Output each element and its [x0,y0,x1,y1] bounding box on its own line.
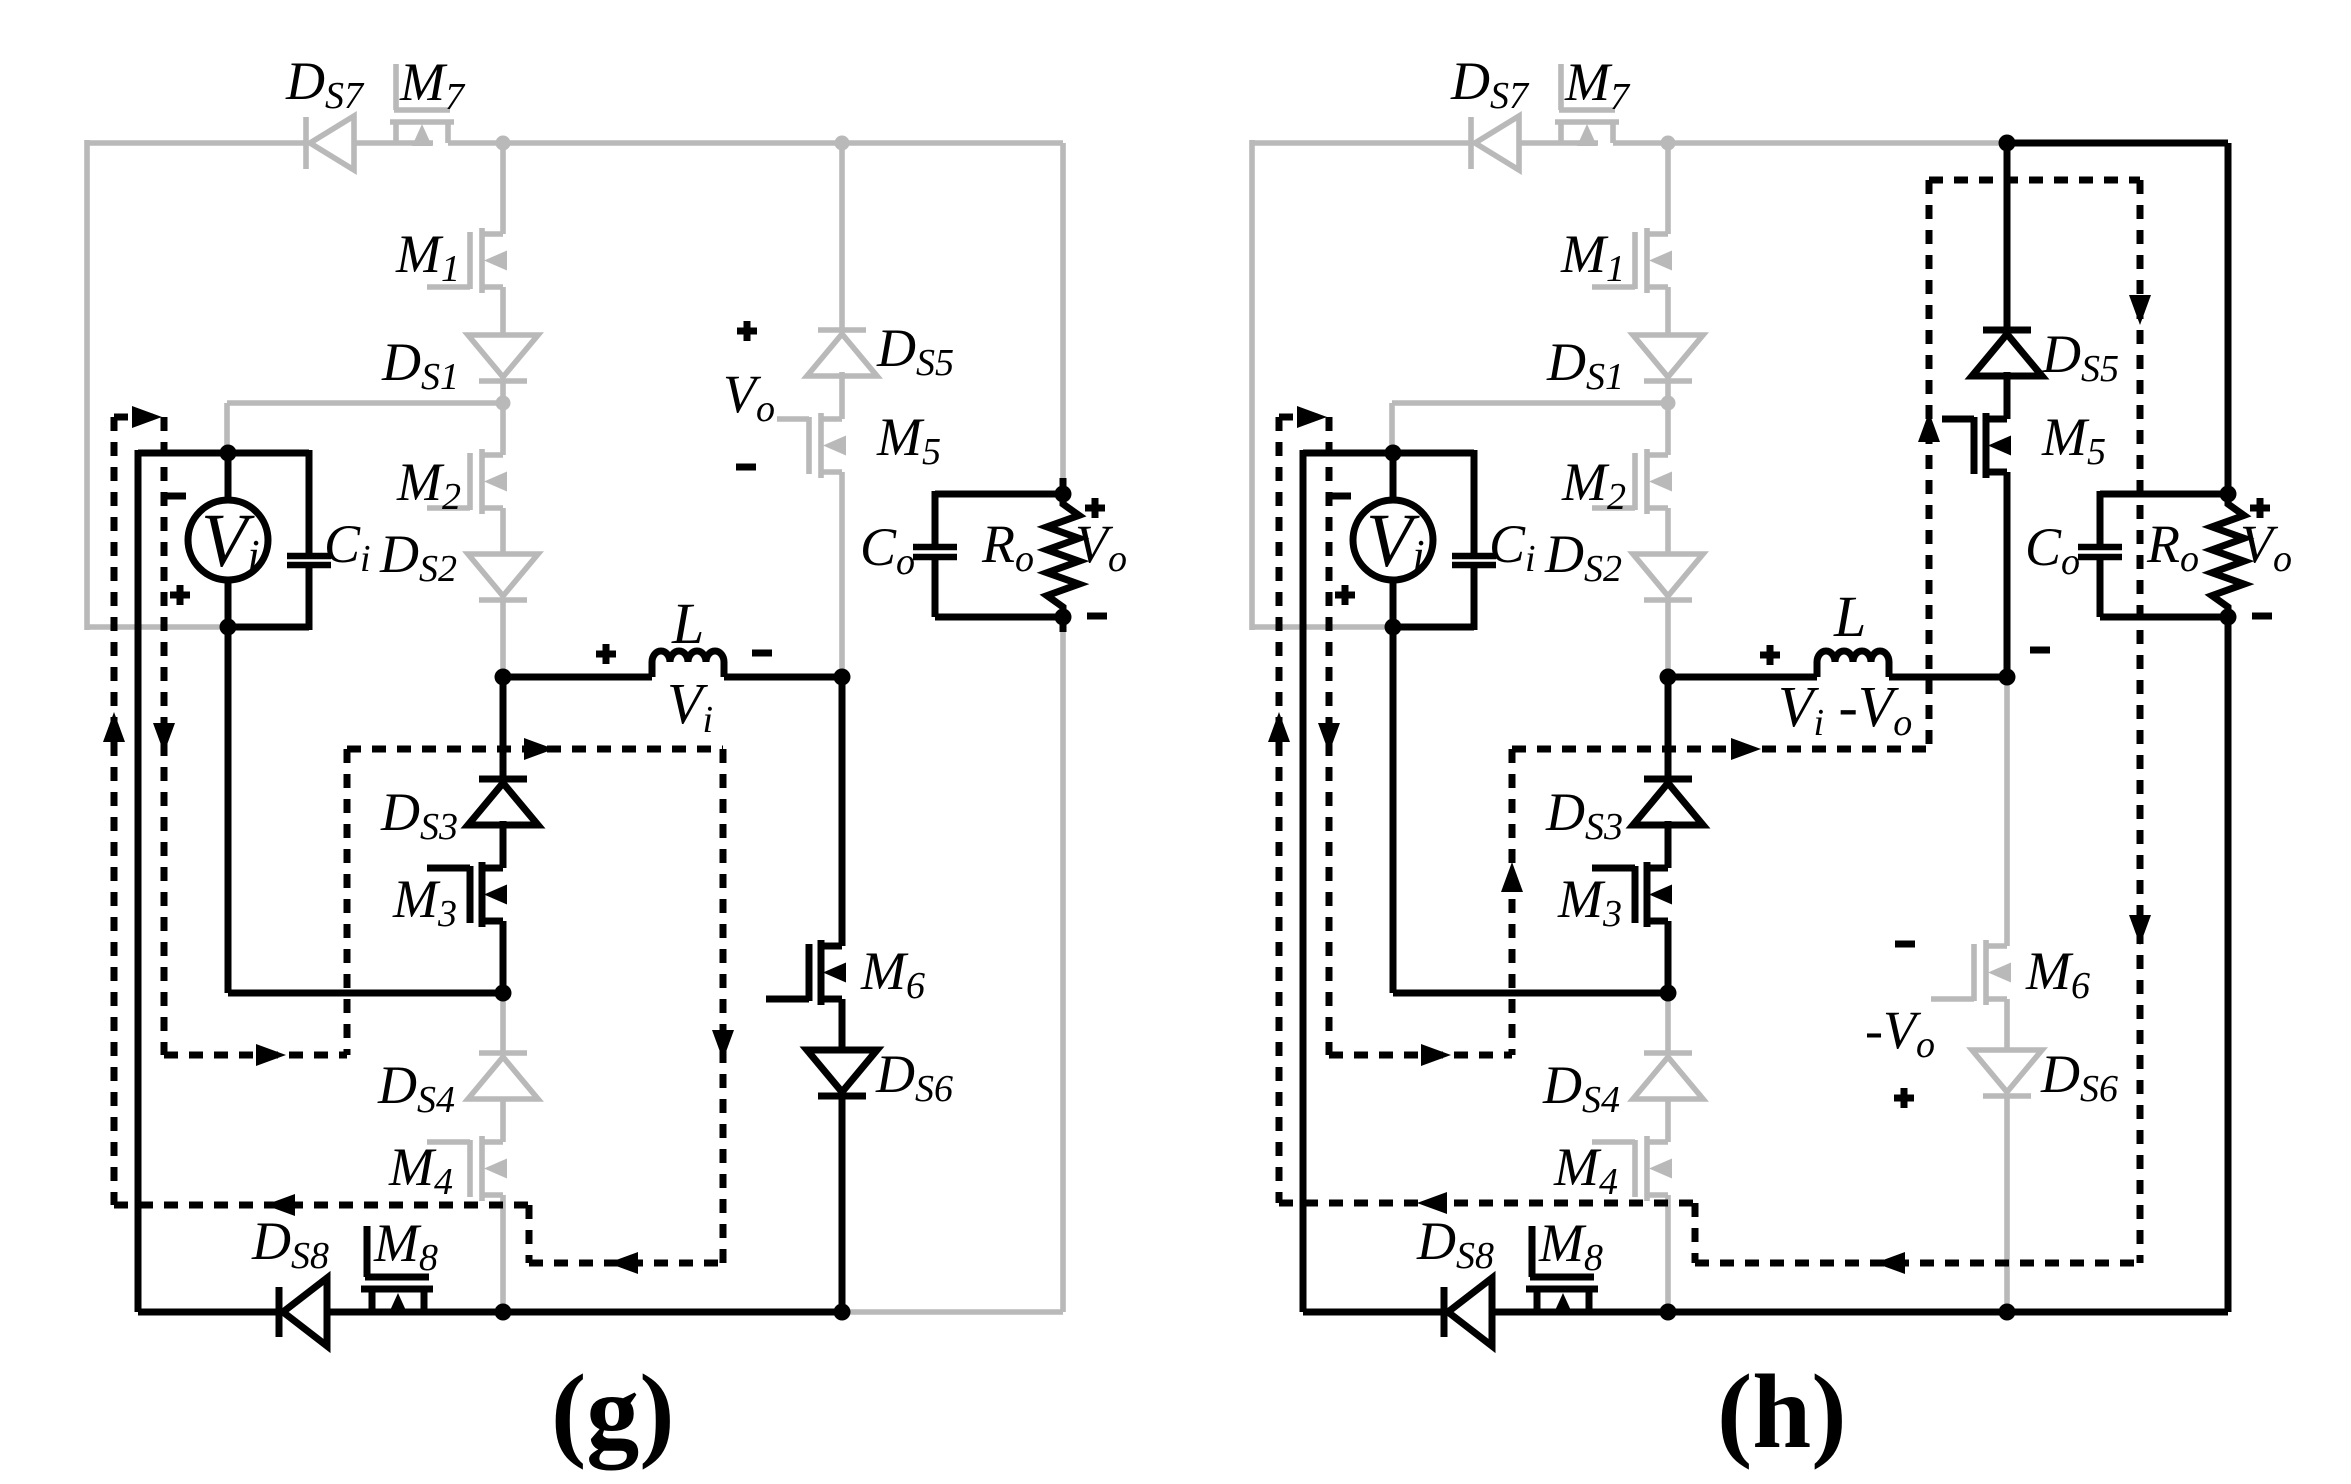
label minus L h [2030,647,2050,654]
label plus Vi h [1335,585,1355,605]
dashed loop link top g [114,406,164,428]
node L left g [495,669,512,686]
wire DS2 to L node h [1665,600,1671,677]
label Vi source h [1366,499,1425,583]
diode DS5 g [807,330,877,376]
dashed loop left vertical g [103,417,125,1205]
label Ro g [981,514,1034,580]
wire M5 to L node h [2004,472,2011,677]
svg-text:Vo: Vo [1075,514,1127,580]
svg-text:Vo: Vo [723,364,775,430]
svg-text:M1: M1 [395,224,460,290]
label DS2 g [379,524,457,590]
label Vo right h [2240,514,2292,580]
wire M7 to node h [1613,140,1668,146]
label DS7 h [1450,51,1530,117]
diode DS6 g [807,1050,877,1096]
dashed loop top link h [1929,177,2140,184]
label Vo right g [1075,514,1127,580]
svg-text:M1: M1 [1560,224,1625,290]
svg-text:-Vo: -Vo [1865,1000,1935,1066]
wire Vi down to M3 net h [1390,627,1397,993]
node bottom M4 g [495,1304,512,1321]
label M8 h [1538,1213,1603,1279]
wire L right g [724,674,842,681]
label M7 h [1564,52,1631,118]
dashed loop jog vertical g [526,1205,533,1263]
dashed loop inner vertical h [1318,417,1340,1055]
transistor M2 h [1592,449,1672,514]
svg-text:M8: M8 [1538,1213,1603,1279]
wire source left vertical h [1300,450,1307,1312]
label Co g [860,517,915,583]
node M1 top g [496,136,511,151]
wire DS6 to bottom g [839,1096,846,1312]
wire M3 source net g [228,990,503,997]
dashed loop mid left vertical h [1501,749,1523,1055]
wire DS5 to M5 g [839,372,845,419]
label DS6 h [2040,1044,2118,1110]
label M2 h [1561,452,1626,518]
wire M6 to DS6 g [839,999,846,1050]
diode DS8 g [279,1278,327,1346]
wire top right g [842,140,1063,146]
wire L node to M6 h [2004,677,2010,946]
wire right stub above Ro h [2225,478,2232,494]
svg-text:M2: M2 [396,452,461,518]
dashed loop mid right vertical g [712,749,734,1263]
label L g [671,591,704,656]
label M1 g [395,224,460,290]
wire Ci branch bottom h [1471,565,1478,630]
svg-text:(g): (g) [551,1353,675,1470]
svg-text:Vi: Vi [1366,499,1425,583]
wire bottom left h [1303,1309,1444,1316]
wire Ci branch top g [306,450,313,556]
transistor M7 h [1555,64,1619,146]
transistor M6 g [766,940,846,1005]
wire DS8 to M8 h [1492,1309,1609,1316]
wire bottom mid h [1668,1309,2007,1316]
svg-text:DS4: DS4 [377,1055,455,1121]
svg-text:Co: Co [860,517,915,583]
dashed loop link top h [1279,406,1329,428]
svg-text:DS1: DS1 [381,332,459,398]
svg-text:DS5: DS5 [876,318,954,384]
wire top mid h [1668,140,2007,146]
wire L left h [1668,674,1817,681]
resistor Ro g [1047,494,1079,617]
inductor L g [652,651,724,677]
wire M3 source net h [1393,990,1668,997]
transistor M2 g [427,449,507,514]
diode DS2 h [1633,554,1703,600]
svg-text:M3: M3 [1557,869,1622,935]
transistor M1 g [427,228,507,293]
diode DS1 g [468,335,538,381]
wire right vertical top h [2225,143,2232,478]
wire M3 to node h [1665,921,1672,993]
node DS1 bottom g [496,396,511,411]
label M6 g [860,941,925,1007]
dashed loop left vertical h [1268,417,1290,1203]
node DS1 bottom h [1661,396,1676,411]
node Ro top h [2220,486,2237,503]
wire top node to M1 h [1665,143,1671,234]
label M4 h [1553,1137,1618,1203]
wire M4 to bottom g [500,1195,506,1312]
label minus L g [752,650,772,657]
svg-text:DS3: DS3 [380,782,458,848]
dashed loop mid left vertical g [344,749,351,1055]
wire Ci branch bottom g [306,565,313,630]
svg-text:DS4: DS4 [1542,1055,1620,1121]
wire source box bottom h [1393,624,1474,631]
wire DS4 to M4 h [1665,1099,1671,1142]
label minus Vi g [166,493,186,500]
voltage source Vi h [1353,500,1433,580]
svg-text:L: L [1833,584,1866,649]
wire DS6 to bottom h [2004,1096,2010,1312]
wire right stub above Ro g [1060,478,1067,494]
transistor M3 g [427,862,507,927]
caption (g) [551,1353,675,1470]
node L left h [1660,669,1677,686]
wire output box bottom h [2100,614,2228,621]
wire M1 to DS1 h [1665,287,1671,335]
label plus L h [1760,645,1780,665]
wire DS7 to M7 h [1519,140,1598,146]
wire top to DS5 h [2004,143,2011,330]
wire M8 to node g [424,1309,503,1316]
diode DS7 g [306,116,354,170]
wire L node to DS3 h [1665,677,1672,779]
wire Vi bottom lead g [225,580,232,627]
svg-text:M5: M5 [2041,407,2106,473]
label M5 h [2041,407,2106,473]
transistor M6 h [1931,940,2011,1005]
diode DS3 h [1633,779,1703,825]
svg-text:M2: M2 [1561,452,1626,518]
svg-text:M4: M4 [388,1137,453,1203]
diode DS6 h [1972,1050,2042,1096]
node M3 source g [495,985,512,1002]
wire source box top h [1303,450,1474,457]
transistor M5 h [1942,413,2011,478]
wire L node to M6 g [839,677,846,946]
svg-text:DS1: DS1 [1546,332,1624,398]
node Vi bottom h [1385,619,1402,636]
svg-text:Ro: Ro [981,514,1034,580]
wire DS3 to M3 h [1665,821,1672,868]
label DS5 g [876,318,954,384]
label L h [1833,584,1866,649]
wire top mid g [503,140,842,146]
wire Vi top lead g [225,453,232,500]
transistor M7 g [390,64,454,146]
dashed loop jog vertical h [1692,1203,1699,1263]
caption (h) [1717,1353,1847,1470]
wire source box bottom g [228,624,309,631]
label -Vo mid h [1865,1000,1935,1066]
wire top rail g [87,140,306,146]
svg-text:M7: M7 [399,52,466,118]
wire Vi bottom lead h [1390,580,1397,627]
wire M5 to L node g [839,472,845,677]
wire top rail h [1252,140,1471,146]
label minus Vo mid g [736,464,756,471]
inductor L h [1817,651,1889,677]
wire top right h [2007,140,2228,147]
label Co h [2025,517,2080,583]
node Ro bottom h [2220,609,2237,626]
transistor M8 h [1526,1226,1598,1315]
diode DS2 g [468,554,538,600]
label M5 g [876,407,941,473]
svg-text:M6: M6 [2025,941,2090,1007]
wire Vi top lead h [1390,453,1397,500]
label DS3 h [1545,782,1623,848]
diode DS5 h [1972,330,2042,376]
label Vo mid g [723,364,775,430]
capacitor Co g [913,547,957,557]
dashed loop mid top g [347,738,723,760]
svg-text:DS8: DS8 [251,1211,329,1277]
label plus Vi g [170,585,190,605]
svg-text:Co: Co [2025,517,2080,583]
dashed loop lower link h [1329,1044,1512,1066]
node Vi bottom g [220,619,237,636]
label M4 g [388,1137,453,1203]
transistor M8 g [361,1226,433,1315]
wire M2 to DS2 g [500,508,506,554]
node bottom M4 h [1660,1304,1677,1321]
label M8 g [373,1213,438,1279]
label Ci h [1489,514,1536,580]
wire M8 to node h [1589,1309,1668,1316]
dashed loop mid bottom g [529,1252,723,1274]
wire bottom mid g [503,1309,842,1316]
label DS2 h [1544,524,1622,590]
wire output box bottom g [935,614,1063,621]
wire top to DS5 g [839,143,845,330]
wire L node to DS3 g [500,677,507,779]
dashed loop inner vertical g [153,417,175,1055]
wire Co branch top g [932,491,939,547]
wire node to DS4 g [500,993,506,1053]
wire Co branch top h [2097,491,2104,547]
svg-text:DS6: DS6 [875,1044,953,1110]
wire DS7 to M7 g [354,140,433,146]
label plus Ro g [1085,498,1105,518]
label plus Vo mid h [1894,1088,1914,1108]
dashed loop lower link g [164,1044,347,1066]
label Ro h [2146,514,2199,580]
label DS1 g [381,332,459,398]
diode DS3 g [468,779,538,825]
svg-text:DS2: DS2 [1544,524,1622,590]
svg-text:DS7: DS7 [1450,51,1530,117]
svg-text:DS5: DS5 [2041,324,2119,390]
wire outer left h [1249,140,1255,630]
wire top node to M1 g [500,143,506,234]
svg-text:M8: M8 [373,1213,438,1279]
svg-text:M7: M7 [1564,52,1631,118]
node L right h [1999,669,2016,686]
wire output box top h [2100,491,2228,498]
node M3 source h [1660,985,1677,1002]
svg-text:M5: M5 [876,407,941,473]
node L right g [834,669,851,686]
svg-text:DS8: DS8 [1416,1211,1494,1277]
dashed loop M5 vertical h [1918,180,1940,749]
svg-text:Vi: Vi [667,671,713,741]
label minus Ro g [1087,613,1107,620]
capacitor Ci g [287,556,331,565]
label minus Vo mid h [1895,941,1915,948]
label DS4 g [377,1055,455,1121]
svg-text:DS6: DS6 [2040,1044,2118,1110]
wire DS8 to M8 g [327,1309,444,1316]
wire M1 to DS1 g [500,287,506,335]
wire DS1 to node h [1665,381,1671,455]
wire DS2 to L node g [500,600,506,677]
svg-text:Vi -Vo: Vi -Vo [1778,674,1912,744]
wire Co branch bottom g [932,557,939,617]
wire Co branch bottom h [2097,557,2104,617]
wire L left g [503,674,652,681]
diode DS7 h [1471,116,1519,170]
wire DS4 to M4 g [500,1099,506,1142]
label plus Vo mid g [737,321,757,341]
wire outer left bottom h [1252,624,1393,630]
wire M4 to bottom h [1665,1195,1671,1312]
node DS5 top h [1999,135,2016,152]
label M7 g [399,52,466,118]
label minus Ro h [2252,613,2272,620]
label DS5 h [2041,324,2119,390]
wire M3 to node g [500,921,507,993]
label M2 g [396,452,461,518]
node Vi top g [220,445,237,462]
transistor M5 g [777,413,846,478]
diode DS4 h [1633,1053,1703,1099]
label DS7 g [285,51,365,117]
wire M2 to DS2 h [1665,508,1671,554]
node Ro bottom g [1055,609,1072,626]
wire bottom left g [138,1309,279,1316]
wire DS3 to M3 g [500,821,507,868]
node Ro top g [1055,486,1072,503]
svg-text:DS2: DS2 [379,524,457,590]
wire M7 to node g [448,140,503,146]
wire bottom right h [2007,1309,2228,1316]
svg-text:DS3: DS3 [1545,782,1623,848]
svg-text:Vo: Vo [2240,514,2292,580]
label DS1 h [1546,332,1624,398]
svg-text:M6: M6 [860,941,925,1007]
svg-text:(h): (h) [1717,1353,1847,1470]
svg-text:M3: M3 [392,869,457,935]
label plus Ro h [2250,498,2270,518]
transistor M4 h [1592,1136,1672,1201]
label DS3 g [380,782,458,848]
wire node to Vi top g [227,403,503,453]
capacitor Co h [2078,547,2122,557]
voltage source Vi g [188,500,268,580]
label Ci g [324,514,371,580]
wire Ci branch top h [1471,450,1478,556]
label M1 h [1560,224,1625,290]
wire right stub below Ro h [2225,617,2232,632]
diode DS4 g [468,1053,538,1099]
node Vi top h [1385,445,1402,462]
wire outer left bottom g [87,624,228,630]
wire source left vertical g [135,450,142,1312]
svg-text:Ro: Ro [2146,514,2199,580]
wire right vertical bottom h [2225,632,2232,1312]
wire bottom right g [842,1309,1063,1315]
wire right vertical bottom g [1060,632,1066,1312]
label DS6 g [875,1044,953,1110]
transistor M4 g [427,1136,507,1201]
wire DS1 to node g [500,381,506,455]
label DS4 h [1542,1055,1620,1121]
label M6 h [2025,941,2090,1007]
label Vi source g [201,499,260,583]
wire right stub below Ro g [1060,617,1067,632]
wire output box top g [935,491,1063,498]
node M1 top h [1661,136,1676,151]
label DS8 h [1416,1211,1494,1277]
dashed loop bottom long g [114,1194,529,1216]
wire right vertical top g [1060,143,1066,478]
label M3 h [1557,869,1622,935]
svg-text:M4: M4 [1553,1137,1618,1203]
resistor Ro h [2212,494,2244,617]
wire L right h [1889,674,2007,681]
wire Vi down to M3 net g [225,627,232,993]
node bottom DS6 g [834,1304,851,1321]
svg-text:DS7: DS7 [285,51,365,117]
wire M6 to DS6 h [2004,999,2010,1050]
label minus Vi h [1331,493,1351,500]
wire DS5 to M5 h [2004,372,2011,419]
node DS5 top g [835,136,850,151]
svg-text:L: L [671,591,704,656]
node bottom DS6 h [1999,1304,2016,1321]
transistor M1 h [1592,228,1672,293]
label Vi under L g [667,671,713,741]
dashed loop bottom long h [1279,1192,1695,1214]
label DS8 g [251,1211,329,1277]
label Vi-Vo h [1778,674,1912,744]
svg-text:Ci: Ci [324,514,371,580]
svg-text:Vi: Vi [201,499,260,583]
wire outer left g [84,140,90,630]
label plus L g [596,644,616,664]
dashed loop mid top h [1512,738,1929,760]
diode DS1 h [1633,335,1703,381]
transistor M3 h [1592,862,1672,927]
dashed loop right vertical h [2129,180,2151,1263]
dashed loop bottom right h [1695,1252,2140,1274]
wire source box top g [138,450,309,457]
diode DS8 h [1444,1278,1492,1346]
label M3 g [392,869,457,935]
wire node to DS4 h [1665,993,1671,1053]
capacitor Ci h [1452,556,1496,565]
